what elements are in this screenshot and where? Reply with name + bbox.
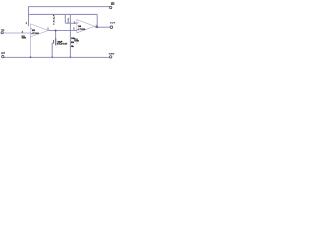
svg-text:1/2: 1/2 — [32, 30, 36, 32]
wire: input wire to A1 + input — [3, 32, 31, 34]
svg-text:GND: GND — [109, 53, 115, 55]
resistor R1 vertical x=70.4 from feedback rail to ground rail — [69, 14, 71, 57]
op-amp U2 plus mark — [77, 29, 78, 30]
wire: drop from output junction to capacitor — [55, 31, 57, 40]
wire: U2 power pin stub — [76, 42, 78, 44]
svg-text:LT1006: LT1006 — [79, 29, 87, 31]
capacitor C1 right plate — [55, 39, 57, 46]
terminal: output (mid-right) — [110, 26, 113, 29]
op-amp U2 triangle — [77, 20, 95, 33]
svg-text:OUT: OUT — [110, 23, 116, 25]
capacitor C1 left plate (curved) — [53, 40, 55, 43]
terminal: ground (bottom-left) — [2, 55, 4, 57]
svg-text:tap: tap — [1, 29, 5, 32]
wire: feedback drop x=97.2 from rail y=14.2 to A2 output — [96, 14, 98, 27]
wire: A1 output to A2 + input — [48, 30, 77, 32]
svg-text:T1006: T1006 — [74, 40, 79, 42]
wire: U1 power pin to ground rail — [30, 37, 32, 58]
terminal: top-right — [110, 6, 112, 8]
svg-text:T1006: T1006 — [22, 38, 27, 40]
svg-text:gnd: gnd — [1, 53, 5, 55]
svg-text:0.015µF: 0.015µF — [53, 14, 55, 25]
wire: second feedback rail y=14.2 — [29, 13, 98, 15]
node: junction dot on A1 output — [55, 30, 57, 32]
node: junction dot capacitor branch on ground rail — [51, 56, 53, 58]
wire: vertical x=65.3 from feedback rail down to A2 inverting input — [64, 14, 66, 23]
op-amp U2 minus mark — [77, 22, 78, 24]
wire: capacitor left plate foot to ground rail — [52, 43, 54, 57]
svg-text:1%: 1% — [71, 42, 74, 44]
op-amp U1 triangle — [31, 24, 49, 37]
svg-text:5k: 5k — [71, 46, 74, 48]
terminal: ground (bottom-right) — [110, 56, 112, 58]
wire: A2 output to right terminal — [95, 26, 110, 28]
wire: vertical from top wire down to A1 inverting input — [28, 6, 30, 26]
node: junction dot resistor on ground rail — [69, 56, 71, 58]
node: junction dot U1 power pin on ground rail — [30, 56, 32, 58]
terminal: input (left) — [1, 32, 3, 34]
ground rail wire y=56.9 — [4, 56, 110, 58]
op-amp U1 plus mark — [31, 33, 32, 34]
wire: top feedback rail y=6.5 — [29, 6, 110, 8]
svg-text:SOLDTANT: SOLDTANT — [57, 43, 68, 46]
svg-text:100k: 100k — [68, 18, 70, 23]
svg-text:1/2: 1/2 — [78, 26, 82, 28]
wire: A2 inverting input wire y=23.2 — [65, 22, 77, 24]
svg-text:LT1006: LT1006 — [32, 33, 40, 35]
svg-text:2: 2 — [26, 23, 28, 25]
op-amp U1 minus mark — [31, 27, 32, 29]
node: junction dot feedback on A2 output — [96, 26, 98, 28]
svg-text:REF: REF — [111, 4, 115, 6]
